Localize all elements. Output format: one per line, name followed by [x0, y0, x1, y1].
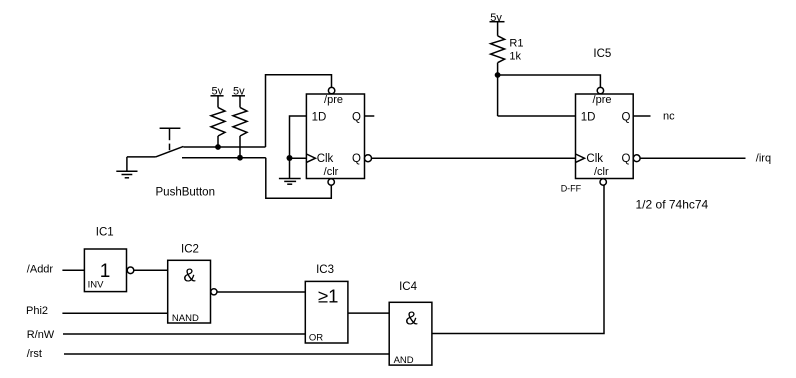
svg-text:IC2: IC2 [181, 243, 199, 255]
svg-text:IC5: IC5 [593, 48, 611, 60]
wire FF1 Clk to junction [290, 157, 307, 159]
wire R/nW to IC3 [63, 333, 305, 335]
svg-text:IC3: IC3 [316, 264, 334, 276]
wire Phi2 to IC2 [62, 312, 167, 314]
flip-flop FF1 box [306, 94, 364, 179]
junction dot (left pull-up) [215, 144, 221, 150]
svg-text:Q: Q [352, 111, 361, 123]
svg-text:/clr: /clr [594, 166, 609, 178]
svg-text:&: & [405, 308, 418, 329]
resistor (left pull-up) [211, 96, 225, 147]
svg-text:Q: Q [621, 111, 630, 123]
wire R1 to IC5 1D [498, 115, 576, 117]
svg-text:/rst: /rst [27, 348, 42, 360]
wire IC3 to IC4 [348, 312, 389, 314]
wire to FF1 /pre [266, 75, 332, 147]
svg-text:INV: INV [88, 280, 105, 291]
IC2 output bubble [211, 289, 217, 295]
svg-text:/irq: /irq [756, 152, 771, 164]
wire FF1 /Q to IC5 Clk [372, 157, 576, 159]
wire IC1 to IC2 [134, 269, 168, 271]
nand IC2 box [168, 260, 211, 323]
power 5v (right pull-up) [232, 86, 245, 98]
svg-text:1D: 1D [581, 111, 596, 123]
wire to FF1 /clr [266, 158, 332, 199]
FF1 /pre bubble [328, 87, 334, 93]
svg-text:≥1: ≥1 [318, 286, 338, 307]
FF1 clk triangle [306, 154, 315, 162]
wire lower contact net [182, 157, 266, 159]
resistor R1 [491, 22, 505, 116]
svg-text:IC4: IC4 [399, 281, 418, 293]
svg-text:1k: 1k [509, 51, 521, 63]
IC5 clk triangle [576, 154, 585, 162]
junction dot (1D/Clk/gnd) [287, 155, 293, 161]
FF1 /Q bubble [365, 155, 372, 162]
svg-text:/Addr: /Addr [27, 263, 54, 275]
svg-text:nc: nc [663, 111, 675, 123]
svg-text:/pre: /pre [324, 94, 343, 106]
IC1 output bubble [127, 267, 134, 274]
FF1 Q stub [365, 115, 375, 117]
resistor (right pull-up) [233, 96, 247, 158]
wire FF1 1D to junction [290, 116, 307, 158]
svg-text:&: & [183, 264, 196, 285]
svg-text:Q: Q [621, 153, 630, 165]
IC5 /clr bubble [600, 179, 606, 185]
svg-text:/pre: /pre [593, 94, 612, 106]
ground (switch common) [116, 157, 137, 178]
svg-text:R/nW: R/nW [27, 329, 55, 341]
wire upper contact net [183, 146, 265, 148]
power 5v (R1) [490, 12, 505, 24]
flip-flop IC5 box [576, 94, 634, 179]
IC5 pin labels [581, 94, 631, 178]
FF1 /clr bubble [328, 179, 334, 185]
inverter IC1 box [84, 249, 126, 292]
junction dot (right pull-up) [237, 155, 243, 161]
or IC3 box [305, 281, 348, 343]
svg-text:/clr: /clr [324, 166, 339, 178]
wire /irq [640, 157, 745, 159]
IC5 /pre bubble [597, 87, 603, 93]
svg-text:Q: Q [352, 153, 361, 165]
wire /Addr to IC1 [62, 269, 84, 271]
pushbutton SW1 [156, 128, 184, 157]
FF1 pin labels [312, 94, 361, 178]
IC5 /Q bubble [633, 155, 640, 162]
wire common-to-switch [127, 156, 156, 158]
svg-text:AND: AND [394, 355, 414, 366]
ground (FF1 D/Clk) [279, 158, 301, 184]
wire /rst to IC4 [64, 353, 389, 355]
svg-text:1/2 of 74hc74: 1/2 of 74hc74 [636, 198, 709, 212]
svg-text:Phi2: Phi2 [26, 305, 48, 317]
power 5v (left pull-up) [211, 86, 224, 98]
IC5 Q stub (nc) [633, 115, 650, 117]
wire IC5 /clr to IC4 output [432, 185, 604, 333]
wire R1 to IC5 /pre [498, 75, 601, 87]
junction dot (R1) [495, 72, 501, 78]
svg-text:Clk: Clk [317, 153, 334, 165]
wire IC2 to IC3 [217, 291, 305, 293]
svg-text:PushButton: PushButton [156, 186, 215, 198]
svg-text:R1: R1 [509, 38, 523, 50]
and IC4 box [389, 302, 432, 365]
svg-text:1D: 1D [312, 111, 327, 123]
svg-text:IC1: IC1 [96, 227, 114, 239]
svg-text:Clk: Clk [586, 153, 603, 165]
svg-text:D-FF: D-FF [561, 184, 582, 194]
svg-text:NAND: NAND [172, 313, 199, 324]
svg-text:OR: OR [309, 332, 323, 343]
